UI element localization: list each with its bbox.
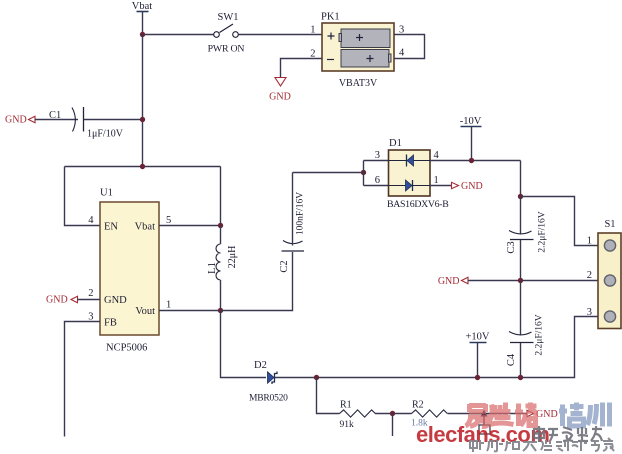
wire down to R1	[317, 378, 340, 414]
svg-text:S1: S1	[604, 219, 615, 230]
svg-text:GND: GND	[438, 276, 460, 287]
wire Vout node to C2 bottom	[221, 252, 293, 311]
wire D2 cathode rail to S1 pin3	[275, 317, 599, 378]
svg-text:91k: 91k	[340, 420, 355, 430]
svg-text:GND: GND	[46, 295, 68, 306]
svg-text:1: 1	[434, 175, 439, 186]
wire Vbat node to SW1	[143, 34, 214, 36]
svg-text:+10V: +10V	[465, 332, 489, 343]
wire R1 to R2	[375, 413, 412, 415]
switch SW1	[208, 12, 245, 55]
power port +10V	[465, 332, 489, 378]
svg-text:C3: C3	[506, 241, 517, 253]
svg-text:2.2μF/16V: 2.2μF/16V	[538, 211, 548, 252]
svg-text:GND: GND	[269, 92, 291, 103]
watermark 电子发烧友	[534, 426, 602, 442]
capacitor C2 100nF/16V	[279, 173, 306, 273]
connector S1	[598, 219, 621, 329]
wire D1 bracket	[364, 161, 389, 186]
wire R2 to ground	[448, 413, 528, 415]
svg-text:5: 5	[166, 215, 171, 226]
svg-text:Vbat: Vbat	[135, 222, 155, 233]
watermark 易迪拓培训	[466, 403, 610, 427]
junction C4 bottom node	[518, 375, 523, 380]
junction D1 bracket node	[361, 170, 366, 175]
svg-text:Vbat: Vbat	[132, 1, 152, 12]
junction C1 node	[140, 117, 145, 122]
svg-text:4: 4	[434, 150, 440, 161]
power port Vbat	[132, 1, 152, 35]
wire Vout node down to D2	[221, 311, 267, 378]
junction D2/R1 node	[314, 375, 319, 380]
svg-text:R1: R1	[340, 400, 352, 411]
svg-text:C1: C1	[49, 110, 61, 121]
wire to S1 pin1	[521, 197, 599, 246]
svg-text:FB: FB	[104, 318, 117, 329]
svg-text:1μF/10V: 1μF/10V	[87, 129, 124, 140]
wire GND to C1	[35, 119, 78, 121]
junction Vbat node	[140, 32, 145, 37]
junction -10V node	[469, 158, 474, 163]
battery holder PK1	[321, 12, 394, 90]
svg-text:D1: D1	[389, 138, 402, 149]
resistor R1 91k	[340, 400, 376, 431]
resistor R2 1.8k	[411, 400, 447, 429]
wire -10V node to C3 top / S1 pin1	[520, 161, 522, 197]
svg-text:1: 1	[587, 236, 592, 247]
svg-text:100nF/16V: 100nF/16V	[296, 192, 306, 235]
ground (D1 pin1)	[452, 181, 483, 192]
wire left drop to EN pin	[65, 167, 101, 226]
wire SW1 to PK1 pin1	[238, 34, 321, 36]
svg-text:4: 4	[399, 48, 405, 59]
svg-text:GND: GND	[5, 115, 27, 126]
junction +10V node	[475, 375, 480, 380]
ground (R2 right)	[527, 409, 558, 420]
svg-text:2.2μF/16V: 2.2μF/16V	[535, 314, 545, 355]
wire D1 pin4 to -10V node	[430, 160, 521, 162]
svg-text:22μH: 22μH	[227, 246, 238, 269]
svg-text:VBAT3V: VBAT3V	[339, 78, 378, 89]
wire U1 pin1 Vout	[159, 310, 221, 312]
svg-text:U1: U1	[100, 188, 113, 199]
capacitor C4 2.2uF/16V	[506, 281, 545, 378]
diode D2 MBR0520	[249, 360, 288, 404]
wire right drop to pin5 node	[220, 167, 222, 226]
capacitor C1 1uF/10V	[49, 107, 124, 140]
svg-text:NCP5006: NCP5006	[106, 343, 147, 354]
svg-text:GND: GND	[461, 181, 483, 192]
ground (mid rail)	[438, 276, 468, 287]
power port -10V	[460, 116, 482, 161]
svg-text:D2: D2	[254, 360, 267, 371]
svg-text:PWR ON: PWR ON	[208, 44, 245, 55]
ground (PK1 pin2)	[269, 78, 291, 103]
capacitor C3 2.2uF/16V	[506, 197, 548, 281]
svg-text:1: 1	[166, 300, 171, 311]
svg-text:4: 4	[88, 215, 94, 226]
svg-text:R2: R2	[412, 400, 424, 411]
svg-text:-10V: -10V	[460, 116, 482, 127]
svg-text:BAS16DXV6-B: BAS16DXV6-B	[387, 199, 449, 210]
junction mid ground node	[518, 278, 523, 283]
svg-text:2: 2	[88, 288, 93, 299]
wire U1 pin3 FB stub and drop	[65, 322, 101, 437]
wire main Vbat vertical	[142, 35, 144, 167]
svg-text:GND: GND	[536, 409, 558, 420]
svg-text:1: 1	[310, 25, 315, 36]
IC U1 NCP5006	[100, 188, 159, 354]
svg-text:SW1: SW1	[218, 12, 239, 23]
wire PK1 pin3-pin4 loop	[394, 35, 425, 59]
test point port	[479, 410, 490, 435]
ground (U1 GND pin2)	[46, 295, 78, 306]
svg-text:Vout: Vout	[135, 306, 155, 317]
wire C2 top to D1 bracket	[293, 172, 364, 174]
wire PK1 pin2 to ground	[281, 59, 322, 78]
dual diode D1 BAS16DXV6-B	[387, 138, 449, 210]
svg-text:3: 3	[375, 150, 380, 161]
watermark 射频和天线设计专家	[470, 438, 614, 452]
junction pin5/L1	[218, 223, 223, 228]
inductor L1 22uH	[207, 226, 238, 311]
wire C1 to Vbat vertical	[84, 119, 143, 121]
svg-text:GND: GND	[104, 295, 127, 306]
svg-text:2: 2	[587, 270, 592, 281]
wire feedback stub	[392, 414, 394, 437]
junction feedback node	[390, 411, 395, 416]
wire top rail above U1	[65, 166, 221, 168]
junction Vout node	[218, 308, 223, 313]
svg-text:MBR0520: MBR0520	[249, 394, 288, 404]
svg-text:PK1: PK1	[321, 12, 340, 23]
svg-text:6: 6	[375, 175, 380, 186]
wire GND to U1 pin2	[78, 299, 101, 301]
wire ground to S1 pin2	[468, 280, 598, 282]
svg-text:C2: C2	[279, 260, 290, 272]
wire U1 pin5 to L1 top	[159, 225, 221, 227]
wire D1 pin1 to ground	[430, 185, 452, 187]
junction top rail	[140, 164, 145, 169]
svg-text:EN: EN	[104, 222, 118, 233]
ground (C1 left)	[5, 115, 35, 126]
junction C3 top node	[518, 194, 523, 199]
svg-text:L1: L1	[207, 262, 218, 274]
svg-text:C4: C4	[506, 353, 517, 366]
